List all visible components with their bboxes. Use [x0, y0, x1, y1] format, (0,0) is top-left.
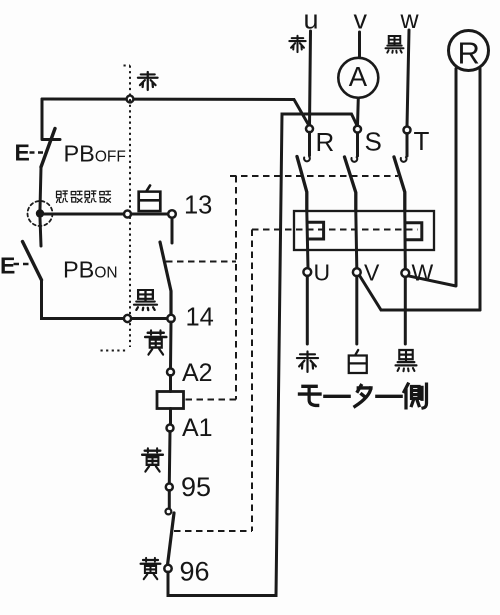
wire: U phase through box down to U node [307, 211, 308, 268]
node on black wire at dotted line [124, 315, 131, 322]
wire: below PB ON down and right to node 14 [42, 280, 172, 319]
linkage dashed: MC vertical to coil [235, 176, 237, 400]
aux contact branch: wire below node 13 [171, 218, 174, 243]
svg-text:V: V [364, 260, 380, 286]
dotted existing-wiring boundary line vertical [129, 66, 131, 348]
MC main contact T fixed terminal [401, 157, 407, 162]
wire: R meter left lead down [455, 69, 458, 286]
wire: S node to contact [356, 133, 359, 156]
wire: 96 down, bottom run, right return up to S tap [168, 114, 358, 596]
wire: W node to motor lead [404, 277, 407, 344]
OL contact fixed terminal [166, 509, 172, 515]
MC main contact S fixed terminal [351, 157, 357, 162]
node: red tap junction on top wire [127, 96, 134, 103]
label 既設配線 (existing wiring) [56, 191, 67, 203]
svg-text:E: E [15, 140, 30, 166]
dashes E to PB ON blade [14, 263, 34, 265]
OL trip contact blade 95-96 [168, 513, 175, 565]
dashed circle marker around junction [28, 201, 53, 226]
label 白 (white) motor lead [349, 350, 367, 373]
wire: 14 down to A2 [169, 322, 173, 369]
node terminal 95 [166, 484, 173, 491]
MC main contact R blade [297, 157, 307, 212]
linkage dashed: OL heaters horizontal through box [252, 229, 418, 231]
node V terminal [353, 268, 361, 276]
wire: R node to contact [308, 132, 311, 155]
label 黄 (yellow) lower [141, 558, 161, 579]
wire: T node to contact [406, 134, 409, 157]
junction node (existing wiring) filled dot [36, 209, 44, 217]
label 黄 (yellow) middle [142, 449, 163, 472]
svg-text:R: R [316, 127, 335, 157]
svg-text:14: 14 [186, 304, 214, 332]
svg-text:E: E [0, 253, 15, 279]
node T terminal [404, 127, 411, 134]
wire: v lead to ammeter [358, 32, 361, 58]
label モーター側 (motor side) bold [299, 384, 426, 408]
node on white wire at dotted line [124, 211, 131, 218]
MC main contact R fixed terminal [304, 157, 310, 162]
linkage dashed: aux contact to MC vertical [166, 261, 236, 263]
wire: V node to motor lead [355, 276, 358, 344]
wire: ammeter to S node [356, 98, 360, 126]
linkage dashed: OL vertical down [251, 230, 253, 532]
label 黒 (black) top [386, 36, 404, 53]
node W terminal [401, 269, 409, 277]
wire: A1 down to 95 [168, 432, 172, 484]
ammeter A circle [338, 58, 378, 98]
wire: white wire horizontal to node 13 [40, 213, 172, 216]
wire: below junction to PB ON [40, 218, 41, 246]
node S terminal [354, 126, 361, 133]
svg-text:A1: A1 [182, 414, 213, 442]
wire: W node diagonal to R meter left lead [408, 276, 456, 286]
contactor coil MC box [157, 392, 184, 409]
svg-text:R: R [458, 36, 480, 71]
PB OFF fixed stub [42, 136, 60, 140]
label 黒 (black) motor lead [396, 350, 417, 371]
node terminal 96 [164, 565, 171, 572]
wire: w lead [407, 30, 409, 127]
label 黄 (yellow) upper [145, 331, 167, 355]
label 白 (white) [139, 186, 161, 212]
linkage dashed: MC main contacts horizontal [230, 175, 398, 177]
pushbutton PB ON blade (NO) [23, 242, 42, 281]
node terminal A2 [167, 369, 174, 376]
wire: coil to A1 [169, 409, 172, 425]
label 赤 (red) top [289, 36, 305, 52]
svg-text:13: 13 [184, 192, 212, 220]
wire: R meter right lead down [479, 69, 482, 310]
OL heater element left (U phase) [308, 222, 324, 239]
MC main contact S blade [345, 157, 356, 211]
svg-text:U: U [314, 260, 331, 286]
thermal overload relay box [294, 211, 434, 250]
svg-text:A: A [349, 61, 368, 92]
label 黒 (black) [134, 290, 157, 310]
aux contact 13-14 blade [160, 242, 171, 315]
pushbutton PB OFF blade (NC) [41, 129, 55, 168]
svg-text:S: S [365, 127, 382, 157]
svg-text:T: T [414, 126, 430, 156]
node terminal 14 [167, 315, 174, 322]
wire: A2 to coil [169, 376, 172, 392]
dotted corner bottom [101, 350, 127, 352]
MC main contact T blade [394, 157, 405, 211]
node R terminal [306, 125, 313, 132]
node terminal A1 [167, 425, 174, 432]
dashes E to PB OFF blade [30, 151, 44, 153]
wire: U node to motor lead [306, 276, 309, 344]
svg-text:v: v [354, 5, 368, 35]
dotted tick top [124, 65, 131, 67]
svg-text:A2: A2 [182, 359, 213, 387]
linkage dashed: coil to vertical [186, 399, 237, 401]
wire: V phase through box down to V node [356, 211, 357, 268]
linkage dashed: OL to 95-96 blade [174, 530, 252, 532]
wire: 95 to OL contact [168, 491, 171, 509]
rotation meter R circle [449, 31, 489, 71]
node terminal 13 [168, 210, 176, 218]
label 赤 (red) motor lead [297, 351, 318, 371]
node U terminal [303, 268, 311, 276]
wire: control top horizontal from left branch to R node [42, 99, 310, 127]
svg-text:PBON: PBON [63, 257, 118, 283]
wire: V node diagonal to R meter right lead [360, 276, 481, 311]
wire: u lead [310, 31, 311, 125]
wire: left vertical down to PB OFF [41, 99, 44, 136]
svg-text:96: 96 [180, 557, 210, 587]
wire: W phase through box down to W node [403, 211, 407, 269]
svg-text:PBOFF: PBOFF [64, 141, 126, 167]
wire: below PB OFF to junction [40, 167, 41, 209]
svg-text:95: 95 [181, 472, 211, 502]
label 赤 (red) top-left wire color [138, 72, 158, 90]
OL heater element right (W phase) [406, 223, 422, 240]
